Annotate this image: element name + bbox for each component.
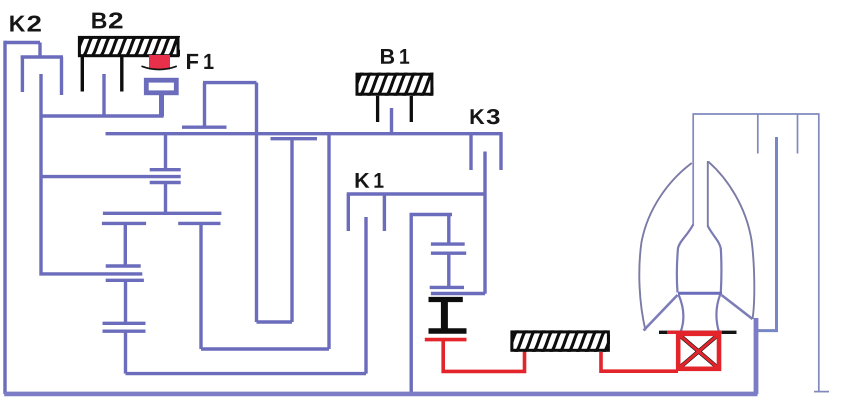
turbine shaft trunk xyxy=(757,137,777,331)
gear bar on input shaft xyxy=(182,125,227,128)
red wire left xyxy=(443,340,524,372)
brake B1 xyxy=(339,68,454,122)
lockup clutch X box xyxy=(678,334,719,369)
brake B2 blue plate xyxy=(102,74,105,116)
planet mesh bars xyxy=(102,222,221,225)
output flange (black) xyxy=(429,300,467,332)
torque converter housing xyxy=(693,114,829,392)
middle gear stack xyxy=(430,215,485,294)
lockup top black line xyxy=(659,331,737,334)
left output shaft stack xyxy=(103,223,367,373)
brake B2 xyxy=(63,32,191,92)
gear bar mesh under line xyxy=(271,137,318,140)
clutch K3 xyxy=(471,134,501,294)
label K2 xyxy=(10,15,40,31)
neck right xyxy=(707,161,709,227)
wire: long line to K3 xyxy=(106,132,503,135)
sun shaft with gear stack xyxy=(41,134,221,214)
clutch K2 xyxy=(4,43,63,96)
torus outer left xyxy=(639,163,692,331)
one-way clutch stub xyxy=(159,95,164,117)
input loop shaft xyxy=(203,83,292,322)
differential brake hatched box xyxy=(495,326,626,356)
stator support thick xyxy=(754,318,759,394)
label B2 xyxy=(92,12,122,28)
red wire right xyxy=(601,352,678,371)
brake B1 blue plate xyxy=(390,108,393,134)
label K3 xyxy=(471,109,500,124)
one-way clutch body xyxy=(146,80,176,93)
torus outer right xyxy=(709,162,755,319)
clutch K1 xyxy=(347,194,485,374)
bottom rail xyxy=(4,392,757,397)
label B1 xyxy=(381,49,409,64)
turbine bell right xyxy=(708,226,722,332)
shaft from K2 hub xyxy=(41,74,142,274)
stator rung xyxy=(678,292,722,295)
stator diagonal left xyxy=(644,295,678,331)
right carrier shaft xyxy=(201,134,329,349)
stator diagonal right xyxy=(722,295,753,319)
label K1 xyxy=(356,173,384,188)
label F1 xyxy=(187,54,214,69)
red coupling bar xyxy=(425,338,467,342)
housing left wall xyxy=(3,41,6,394)
output drum shaft xyxy=(411,215,452,395)
lockup top red overlay xyxy=(667,331,722,334)
wire: ring gear line (K2/B2/F1) xyxy=(41,114,164,117)
freewheel F1 xyxy=(142,55,177,70)
turbine bell left xyxy=(677,225,693,332)
